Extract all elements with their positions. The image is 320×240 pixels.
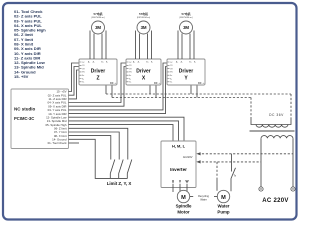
svg-text:A+: A+ — [129, 74, 131, 77]
svg-text:Driver: Driver — [136, 69, 151, 75]
svg-text:15- +5V: 15- +5V — [14, 74, 29, 79]
svg-text:A+: A+ — [170, 74, 172, 77]
svg-text:Driver: Driver — [179, 69, 194, 75]
svg-text:A+: A+ — [82, 74, 84, 77]
svg-text:W: W — [185, 180, 188, 184]
svg-text:B+: B+ — [129, 82, 131, 84]
svg-text:57电机: 57电机 — [94, 11, 103, 16]
svg-text:3M: 3M — [141, 25, 147, 30]
svg-text:DC 36V: DC 36V — [269, 113, 284, 117]
svg-text:Driver: Driver — [91, 69, 106, 75]
svg-text:H, M, L: H, M, L — [172, 144, 186, 149]
svg-text:3M: 3M — [95, 25, 101, 30]
svg-text:(FBY5634-m): (FBY5634-m) — [91, 17, 104, 19]
svg-text:B+: B+ — [170, 82, 172, 84]
svg-text:PCIMC-3C: PCIMC-3C — [14, 116, 34, 121]
svg-text:DC: DC — [154, 83, 158, 85]
svg-text:Spindle: Spindle — [176, 204, 192, 209]
svg-text:DC: DC — [198, 83, 202, 85]
svg-text:01- Tool Check: 01- Tool Check — [48, 141, 67, 145]
svg-text:57电机: 57电机 — [182, 11, 191, 16]
svg-text:Motor: Motor — [177, 210, 189, 215]
svg-text:NC studio: NC studio — [14, 107, 35, 112]
svg-text:M: M — [181, 195, 186, 201]
svg-text:Z: Z — [96, 76, 99, 82]
svg-text:57电机: 57电机 — [139, 11, 148, 16]
svg-text:M: M — [221, 195, 226, 201]
svg-text:AC220V: AC220V — [183, 155, 193, 159]
svg-text:Inverter: Inverter — [170, 167, 187, 172]
svg-text:(FBY5634-m): (FBY5634-m) — [179, 17, 192, 19]
svg-text:DC: DC — [110, 83, 114, 85]
svg-text:Pump: Pump — [217, 210, 230, 215]
svg-text:3M: 3M — [183, 25, 189, 30]
svg-text:(FBY5634-m): (FBY5634-m) — [137, 17, 150, 19]
svg-text:Limit Z, Y, X: Limit Z, Y, X — [107, 181, 132, 186]
svg-text:AC 220V: AC 220V — [262, 198, 288, 204]
svg-text:Water: Water — [200, 198, 207, 201]
svg-text:B+: B+ — [82, 82, 84, 84]
svg-text:Water: Water — [217, 204, 229, 209]
